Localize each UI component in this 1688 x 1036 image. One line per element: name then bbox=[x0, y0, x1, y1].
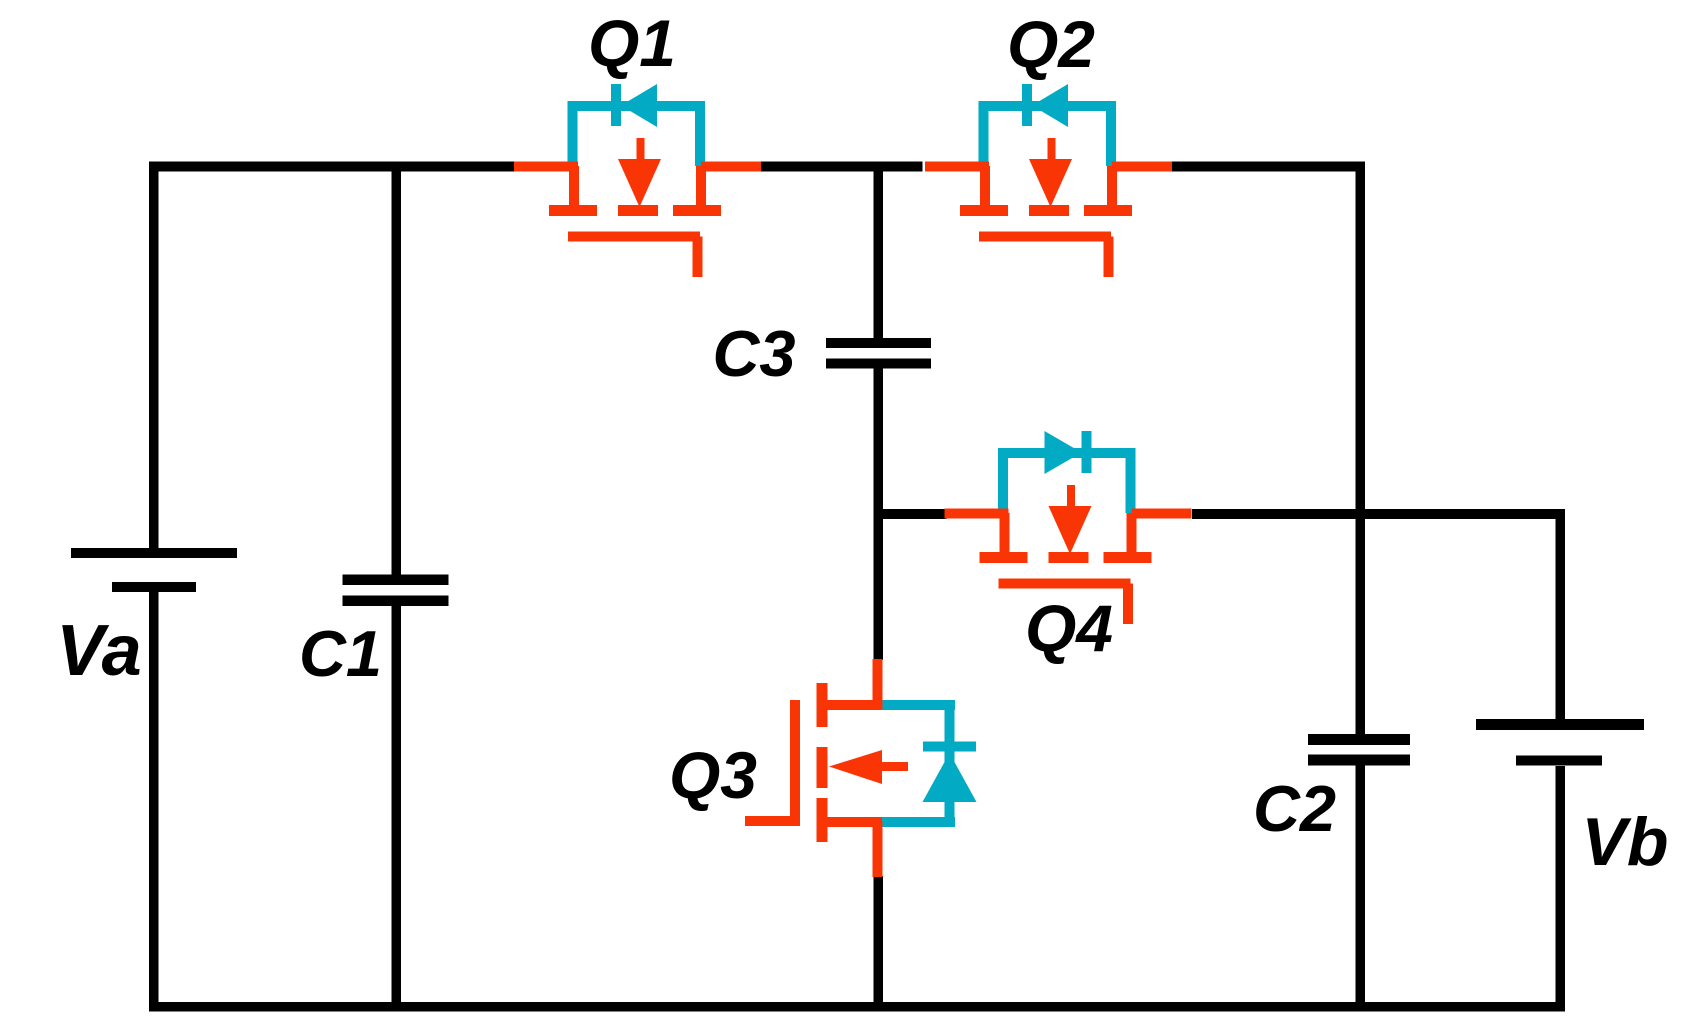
wire: top rail middle segment (Q1 source to Q2 drain, node with C3 branch) bbox=[761, 162, 923, 172]
Q4 gate bar bbox=[999, 579, 1131, 589]
Q4 gate lead bbox=[1123, 584, 1133, 625]
svg-text:C1: C1 bbox=[299, 617, 382, 690]
svg-text:Va: Va bbox=[56, 611, 141, 691]
Q1 source lead bbox=[701, 162, 761, 172]
wire: Q4 row left segment (middle vertical to Q4 drain) bbox=[874, 509, 947, 519]
Q4 channel bars bbox=[980, 552, 1028, 563]
Q4 body arrow bbox=[1067, 485, 1075, 509]
Q1 gate bar bbox=[568, 232, 700, 242]
capacitor C3 bbox=[826, 338, 931, 369]
Q1 body diode loop bbox=[568, 101, 578, 166]
Q4 drain drop bbox=[1000, 513, 1010, 553]
Q3 channel bars bbox=[817, 683, 828, 727]
wire: middle vertical lower (Q3 source to bottom rail) bbox=[874, 876, 884, 1012]
wire: Q4 row right segment (Q4 source to Vb corner) bbox=[1192, 509, 1565, 519]
Q2 body arrow bbox=[1048, 138, 1056, 162]
svg-text:Q4: Q4 bbox=[1025, 591, 1113, 665]
Q2 body diode loop bbox=[979, 101, 989, 166]
svg-text:Q2: Q2 bbox=[1007, 7, 1095, 81]
Q2 gate bar bbox=[979, 232, 1111, 242]
Q2 drain lead bbox=[925, 162, 989, 172]
wire: top rail right segment (Q2 source to right corner) bbox=[1169, 162, 1365, 172]
wire: Vb vertical upper (Q4 row corner to Vb + terminal) bbox=[1556, 509, 1566, 719]
Q3 gate lead bbox=[745, 816, 800, 826]
wire: Vb vertical lower (Vb - terminal to bottom rail) bbox=[1556, 766, 1566, 1012]
label C2 bbox=[1253, 772, 1336, 845]
capacitor C1 bbox=[343, 575, 449, 607]
Q1 body arrow bbox=[637, 138, 645, 162]
wire: C1 branch lower bbox=[392, 605, 402, 1012]
label Vb bbox=[1582, 804, 1669, 880]
transistor Q1 (MOSFET with body diode) bbox=[514, 84, 761, 277]
wire: bottom rail bbox=[149, 1002, 1565, 1012]
svg-text:C2: C2 bbox=[1253, 772, 1336, 845]
wire: C1 branch upper bbox=[392, 162, 402, 575]
battery Va bbox=[71, 548, 237, 592]
wire: left vertical upper (top rail to Va + terminal) bbox=[149, 162, 159, 552]
label Q1 bbox=[588, 6, 676, 80]
Q2 source lead bbox=[1112, 162, 1172, 172]
Q1 source drop bbox=[696, 166, 706, 206]
wire: top rail left segment (Va node to Q1 drain) bbox=[149, 162, 514, 172]
transistor Q2 (MOSFET with body diode) bbox=[925, 84, 1172, 277]
Q3 body diode loop bbox=[877, 700, 955, 710]
Q3 source connection bbox=[817, 817, 882, 827]
label C1 bbox=[299, 617, 382, 690]
svg-text:Vb: Vb bbox=[1582, 804, 1669, 880]
Q1 drain lead bbox=[514, 162, 578, 172]
Q4 drain lead bbox=[945, 509, 1009, 519]
Q2 channel bars bbox=[960, 205, 1008, 216]
Q3 source lead bbox=[873, 822, 883, 877]
Q1 gate lead bbox=[693, 237, 703, 278]
Q2 drain drop bbox=[980, 166, 990, 206]
transistor Q3 (MOSFET with body diode, vertical orientation) bbox=[745, 659, 977, 877]
wire: left vertical lower (Va - terminal to bottom rail) bbox=[149, 586, 159, 1011]
Q3 drain lead bbox=[873, 659, 883, 710]
wire: right vertical lower (C2 to bottom rail) bbox=[1356, 765, 1366, 1012]
Q4 body diode loop bbox=[998, 448, 1008, 513]
svg-text:Q3: Q3 bbox=[669, 738, 757, 812]
Q4 source drop bbox=[1127, 513, 1137, 553]
Q3 drain connection bbox=[817, 700, 882, 710]
label Q4 bbox=[1025, 591, 1113, 665]
Q2 gate lead bbox=[1104, 237, 1114, 278]
battery Vb bbox=[1476, 719, 1644, 766]
Q3 body arrow bbox=[882, 762, 908, 771]
Q2 source drop bbox=[1107, 166, 1117, 206]
label Q2 bbox=[1007, 7, 1095, 81]
Q3 gate bar bbox=[790, 700, 800, 816]
label Q3 bbox=[669, 738, 757, 812]
transistor Q4 (MOSFET with body diode) bbox=[945, 431, 1192, 624]
Q1 drain drop bbox=[569, 166, 579, 206]
svg-text:Q1: Q1 bbox=[588, 6, 676, 80]
wire: right vertical upper (top right corner to C2) bbox=[1356, 162, 1366, 735]
Q3 body diode bbox=[923, 742, 976, 752]
Q1 channel bars bbox=[549, 205, 597, 216]
label Va bbox=[56, 611, 141, 691]
label C3 bbox=[712, 317, 795, 390]
wire: middle vertical upper (top rail node to C3) bbox=[874, 162, 884, 339]
Q4 source lead bbox=[1132, 509, 1192, 519]
wire: middle vertical mid (C3 to Q3 drain, node with Q4 branch) bbox=[874, 368, 884, 660]
capacitor C2 bbox=[1308, 734, 1410, 766]
Q1 body diode bbox=[611, 84, 621, 126]
Q2 body diode bbox=[1022, 84, 1032, 126]
Q4 body diode bbox=[1082, 431, 1092, 473]
svg-text:C3: C3 bbox=[712, 317, 795, 390]
